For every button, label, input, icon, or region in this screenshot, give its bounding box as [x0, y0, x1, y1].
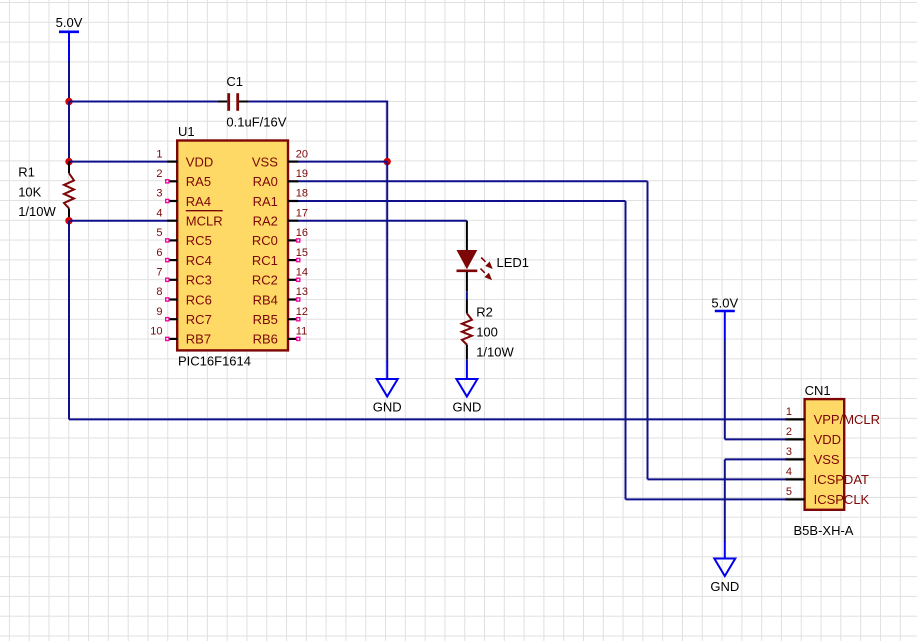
svg-text:ICSPCLK: ICSPCLK: [814, 492, 870, 507]
U1 pin 4 MCLR: [156, 207, 222, 228]
svg-text:4: 4: [156, 207, 162, 219]
resistor R1 10K pullup: [18, 162, 74, 221]
svg-text:RC2: RC2: [252, 273, 278, 288]
svg-text:16: 16: [296, 227, 308, 239]
svg-text:5: 5: [786, 486, 792, 498]
svg-text:RB6: RB6: [253, 332, 278, 347]
U1 pin 14 RC2: [252, 267, 308, 288]
svg-text:RB5: RB5: [253, 312, 278, 327]
CN1 part number label: [794, 523, 854, 538]
wire pin17 RA2 to LED: [298, 220, 467, 222]
svg-text:RC3: RC3: [186, 273, 212, 288]
U1 pin 6 RC4: [156, 247, 211, 268]
svg-text:VSS: VSS: [814, 452, 840, 467]
svg-text:CN1: CN1: [805, 383, 831, 398]
svg-text:3: 3: [156, 188, 162, 200]
svg-text:RA0: RA0: [253, 174, 278, 189]
svg-text:C1: C1: [226, 74, 243, 89]
svg-text:RC7: RC7: [186, 312, 212, 327]
U1 pin 16 RC0: [252, 227, 308, 248]
wire VSS down to GND3: [724, 459, 726, 541]
svg-text:RB4: RB4: [253, 292, 278, 307]
svg-text:100: 100: [476, 324, 498, 339]
U1 pin 17 RA2: [253, 207, 308, 228]
svg-text:0.1uF/16V: 0.1uF/16V: [226, 114, 286, 129]
wire node C to pin 1 VDD: [69, 161, 168, 163]
svg-text:RC0: RC0: [252, 233, 278, 248]
svg-text:RA2: RA2: [253, 214, 278, 229]
svg-text:VSS: VSS: [252, 154, 278, 169]
resistor R2 100: [462, 300, 515, 360]
svg-text:5.0V: 5.0V: [711, 295, 738, 310]
CN1 pin 5 ICSPCLK: [786, 486, 870, 507]
node A junction (5V / C1 row): [65, 98, 72, 105]
svg-text:2: 2: [786, 426, 792, 438]
svg-text:12: 12: [296, 306, 308, 318]
svg-text:3: 3: [786, 446, 792, 458]
wire to CN1 pin4 ICSPDAT: [648, 478, 786, 480]
svg-text:GND: GND: [373, 400, 402, 415]
svg-text:B5B-XH-A: B5B-XH-A: [794, 523, 854, 538]
U1 pin 9 RC7: [156, 306, 211, 327]
svg-text:R1: R1: [18, 165, 35, 180]
svg-text:1: 1: [156, 148, 162, 160]
svg-text:18: 18: [296, 188, 308, 200]
svg-text:RC4: RC4: [186, 253, 212, 268]
svg-text:10: 10: [150, 326, 162, 338]
wire corner down to node B: [386, 101, 388, 162]
svg-text:GND: GND: [710, 579, 739, 594]
U1 pin 3 RA4: [156, 188, 211, 209]
svg-text:RC1: RC1: [252, 253, 278, 268]
svg-text:ICSPDAT: ICSPDAT: [814, 472, 869, 487]
svg-text:1/10W: 1/10W: [18, 204, 56, 219]
svg-text:RC5: RC5: [186, 233, 212, 248]
wire to CN1 pin2 VDD: [725, 438, 786, 440]
svg-text:RA5: RA5: [186, 174, 211, 189]
U1 pin 11 RB6: [253, 326, 308, 347]
ground GND3: [710, 541, 739, 594]
LED LED1: [457, 221, 530, 292]
svg-text:11: 11: [296, 326, 307, 338]
IC U1 PIC16F1614 body: [177, 141, 288, 351]
U1 pin 12 RB5: [253, 306, 308, 327]
svg-text:10K: 10K: [18, 184, 41, 199]
svg-text:PIC16F1614: PIC16F1614: [178, 354, 251, 369]
node B junction (VSS pin 20): [384, 158, 391, 165]
wire bottom rail to CN1 pin 1 VPP: [69, 418, 786, 420]
svg-text:GND: GND: [452, 400, 481, 415]
svg-text:19: 19: [296, 168, 308, 180]
svg-text:20: 20: [296, 148, 308, 160]
svg-text:LED1: LED1: [497, 255, 530, 270]
svg-text:5: 5: [156, 227, 162, 239]
U1 pin 20 VSS: [252, 148, 308, 169]
svg-text:U1: U1: [178, 124, 195, 139]
wire pin19 RA0 east: [298, 180, 648, 182]
svg-text:1: 1: [786, 406, 792, 418]
ground GND2: [452, 362, 481, 415]
wire node A to C1 left: [69, 101, 218, 103]
svg-text:RA4: RA4: [186, 194, 211, 209]
wire C1 right to corner: [249, 101, 388, 103]
U1 pin 8 RC6: [156, 286, 211, 307]
wire 5V flag to junction A: [68, 62, 70, 102]
wire node B down to GND1: [386, 162, 388, 362]
U1 pin 15 RC1: [252, 247, 308, 268]
U1 pin 5 RC5: [156, 227, 211, 248]
svg-text:RC6: RC6: [186, 292, 212, 307]
svg-text:5.0V: 5.0V: [56, 15, 83, 30]
svg-text:4: 4: [786, 466, 792, 478]
CN1 designator label: [805, 383, 831, 398]
svg-text:13: 13: [296, 286, 308, 298]
svg-text:8: 8: [156, 286, 162, 298]
power 5.0V flag (right): [711, 295, 738, 340]
svg-text:9: 9: [156, 306, 162, 318]
svg-text:1/10W: 1/10W: [476, 345, 514, 360]
U1 pin 2 RA5: [156, 168, 211, 189]
U1 pin 1 VDD: [156, 148, 213, 169]
capacitor C1 0.1uF/16V: [218, 74, 287, 129]
svg-text:MCLR: MCLR: [186, 214, 223, 229]
svg-text:VPP/MCLR: VPP/MCLR: [814, 412, 880, 427]
node C junction (VDD pin1 row): [65, 158, 72, 165]
wire RA0 vertical down: [647, 181, 649, 479]
svg-text:RB7: RB7: [186, 332, 211, 347]
svg-text:VDD: VDD: [186, 154, 213, 169]
svg-text:7: 7: [156, 267, 162, 279]
node D junction (MCLR pin4 row): [65, 217, 72, 224]
wire RA1 vertical down: [625, 201, 627, 499]
wire CN1 pin3 VSS west: [725, 458, 786, 460]
U1 designator label: [178, 124, 195, 139]
wire LED cathode to R2: [466, 291, 468, 299]
wire 5V right down to VDD row: [724, 341, 726, 440]
power 5.0V flag (left): [56, 15, 83, 61]
CN1 pin 3 VSS: [786, 446, 840, 467]
wire R2 to GND2: [466, 359, 468, 362]
wire pin20 VSS to node B: [298, 161, 387, 163]
svg-text:2: 2: [156, 168, 162, 180]
CN1 pin 4 ICSPDAT: [786, 466, 870, 487]
svg-text:15: 15: [296, 247, 308, 259]
connector CN1 body: [805, 399, 845, 510]
U1 pin 7 RC3: [156, 267, 211, 288]
wire node D to pin 4 MCLR: [69, 220, 168, 222]
svg-text:RA1: RA1: [253, 194, 278, 209]
svg-text:14: 14: [296, 267, 308, 279]
CN1 pin 1 VPP/MCLR: [786, 406, 881, 427]
U1 pin 19 RA0: [253, 168, 308, 189]
wire node D down to bottom rail: [68, 221, 70, 420]
U1 pin 13 RB4: [253, 286, 308, 307]
U1 part number label: [178, 354, 251, 369]
svg-text:17: 17: [296, 207, 308, 219]
CN1 pin 2 VDD: [786, 426, 842, 447]
wire pin18 RA1 east: [298, 200, 626, 202]
U1 pin 18 RA1: [253, 188, 308, 209]
U1 pin 10 RB7: [150, 326, 211, 347]
wire to CN1 pin5 ICSPCLK: [626, 498, 786, 500]
wire node A down to node C: [68, 102, 70, 162]
svg-text:6: 6: [156, 247, 162, 259]
svg-text:VDD: VDD: [814, 432, 841, 447]
svg-text:R2: R2: [476, 304, 493, 319]
ground GND1: [373, 361, 402, 415]
